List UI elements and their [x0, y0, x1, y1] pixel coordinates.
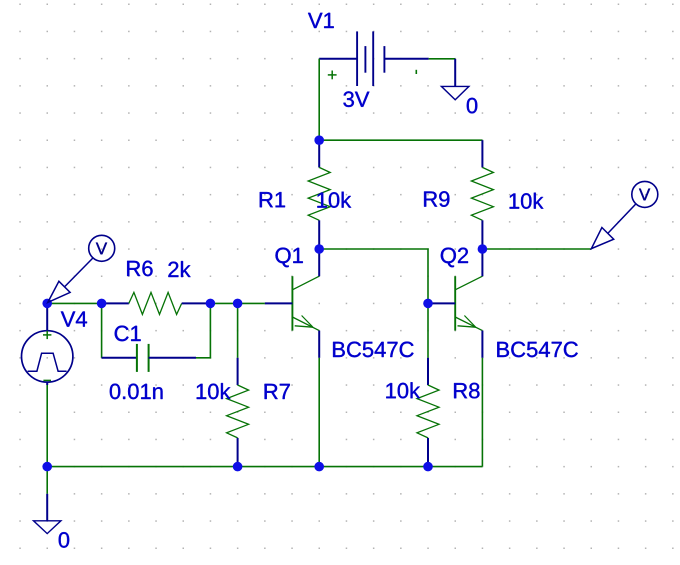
resistor R8	[417, 358, 439, 467]
wire	[429, 58, 456, 60]
wire	[101, 303, 103, 357]
battery V1 plus mark	[328, 71, 337, 80]
junction	[233, 299, 243, 309]
wire	[46, 467, 48, 494]
wire	[238, 302, 265, 304]
value BC547C (Q1)	[333, 342, 414, 358]
battery V1 minus mark	[415, 70, 417, 74]
wire	[427, 303, 429, 357]
ground (top right)	[441, 59, 469, 100]
label C1	[115, 326, 141, 342]
V4 minus mark	[43, 379, 51, 381]
wire	[47, 302, 101, 304]
value 10k (R1)	[317, 192, 351, 208]
transistor Q1	[265, 249, 319, 358]
resistor R1	[308, 140, 330, 249]
value 10k (R8)	[386, 382, 420, 398]
wire	[210, 302, 237, 304]
junction	[314, 462, 324, 472]
label R7	[265, 384, 290, 399]
junction	[423, 299, 433, 309]
value 10k (R7)	[197, 383, 231, 399]
wire	[319, 139, 482, 141]
battery V1	[319, 31, 429, 86]
wire	[318, 59, 320, 140]
value 2k (R6)	[168, 261, 190, 277]
value BC547C (Q2)	[497, 342, 578, 358]
junction	[478, 244, 488, 254]
voltage probe (input)	[48, 235, 115, 302]
voltage source V4	[22, 303, 73, 385]
wire	[318, 358, 320, 467]
resistor R6	[102, 292, 211, 314]
junction	[42, 299, 52, 309]
value 3V	[343, 91, 369, 107]
label 0 (bottom ground)	[59, 532, 69, 548]
wire	[482, 248, 591, 250]
label R8	[454, 383, 479, 399]
junction	[423, 462, 433, 472]
label 0 (top ground)	[467, 98, 478, 114]
junction	[42, 462, 52, 472]
V4 plus mark	[43, 331, 51, 339]
ground (bottom left)	[34, 494, 61, 534]
label R1	[260, 192, 285, 207]
wire	[481, 358, 483, 467]
wire	[237, 303, 239, 357]
wire	[319, 249, 428, 303]
resistor R7	[227, 358, 249, 467]
label R6	[127, 261, 152, 277]
junction	[97, 299, 107, 309]
value 0.01n (C1)	[110, 384, 163, 400]
junction	[233, 462, 243, 472]
value 10k (R9)	[510, 193, 544, 209]
transistor Q2	[428, 249, 482, 358]
label Q1	[276, 248, 303, 268]
label V1	[308, 13, 334, 28]
label R9	[424, 191, 449, 207]
voltage probe (output)	[591, 181, 657, 248]
junction	[206, 299, 216, 309]
junction	[314, 135, 324, 145]
junction	[314, 244, 324, 254]
label Q2	[441, 248, 468, 268]
wire	[196, 303, 210, 357]
resistor R9	[471, 140, 493, 249]
capacitor C1	[102, 344, 196, 372]
wire	[47, 466, 482, 468]
wire	[46, 385, 48, 467]
label V4	[61, 312, 87, 327]
